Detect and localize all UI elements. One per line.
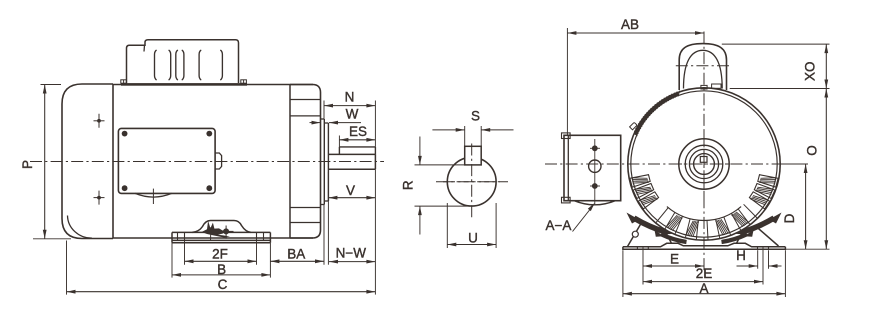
svg-text:A: A bbox=[699, 281, 708, 296]
svg-text:2F: 2F bbox=[212, 246, 228, 261]
svg-text:N−W: N−W bbox=[336, 246, 367, 261]
svg-text:2E: 2E bbox=[696, 266, 713, 281]
svg-text:V: V bbox=[346, 183, 355, 198]
svg-text:XO: XO bbox=[803, 61, 818, 81]
svg-text:H: H bbox=[736, 248, 746, 263]
svg-text:BA: BA bbox=[287, 246, 305, 261]
svg-text:R: R bbox=[400, 180, 415, 190]
svg-text:S: S bbox=[471, 108, 480, 123]
svg-text:ES: ES bbox=[349, 124, 367, 139]
svg-text:B: B bbox=[217, 262, 226, 277]
svg-text:P: P bbox=[20, 160, 35, 169]
svg-text:W: W bbox=[346, 106, 359, 121]
svg-text:N: N bbox=[345, 89, 355, 104]
svg-text:U: U bbox=[468, 231, 478, 246]
svg-text:D: D bbox=[782, 213, 797, 223]
svg-text:AB: AB bbox=[621, 17, 639, 32]
svg-text:O: O bbox=[804, 145, 819, 156]
svg-text:A−A: A−A bbox=[546, 218, 572, 233]
svg-text:E: E bbox=[670, 252, 679, 267]
svg-text:C: C bbox=[218, 277, 228, 292]
